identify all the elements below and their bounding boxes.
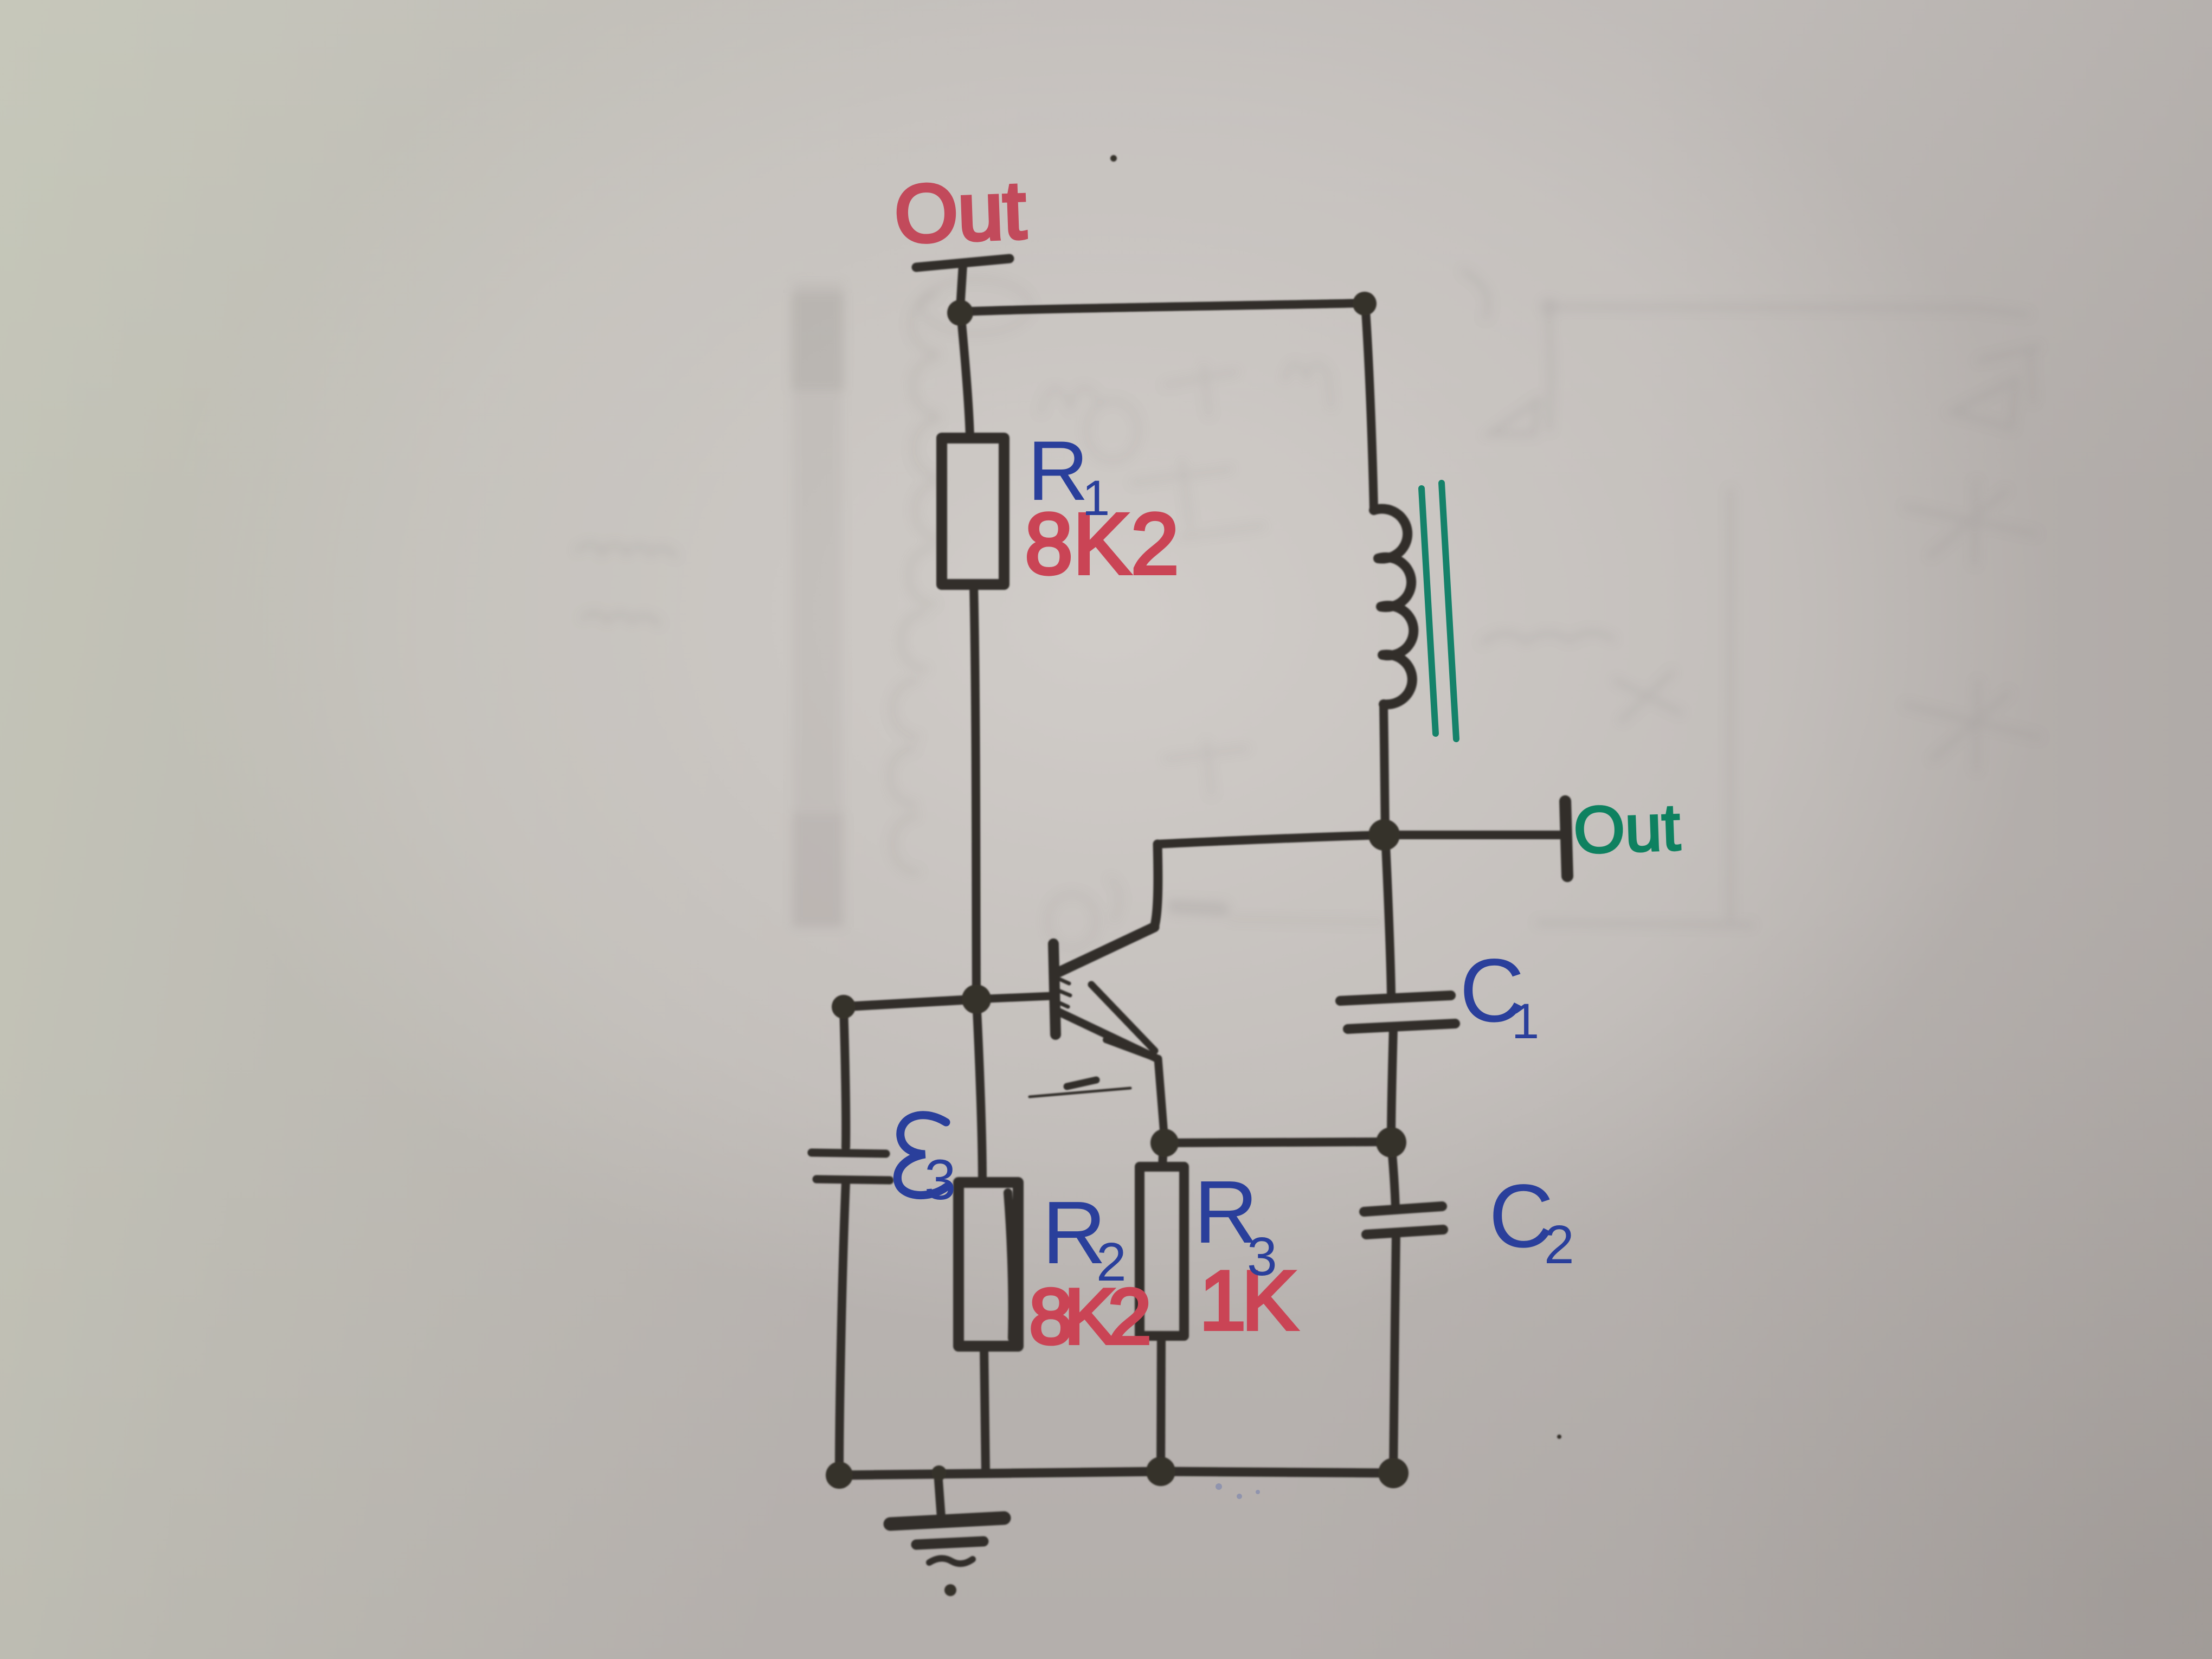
svg-text:3: 3 [924, 1148, 956, 1212]
svg-text:R: R [1027, 424, 1089, 518]
svg-text:Out: Out [1572, 790, 1681, 867]
svg-text:8K2: 8K2 [1029, 1272, 1148, 1360]
svg-text:1: 1 [1082, 471, 1110, 526]
svg-text:2: 2 [1544, 1214, 1574, 1275]
svg-text:3: 3 [1247, 1226, 1277, 1287]
svg-text:2: 2 [1096, 1232, 1127, 1293]
svg-text:Out: Out [893, 164, 1027, 260]
svg-text:1: 1 [1512, 994, 1539, 1049]
